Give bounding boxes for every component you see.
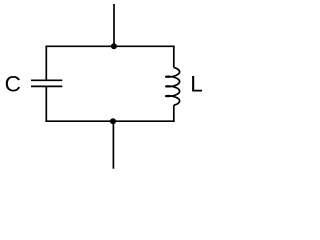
svg-text:C: C — [5, 72, 21, 97]
svg-text:L: L — [190, 72, 203, 97]
